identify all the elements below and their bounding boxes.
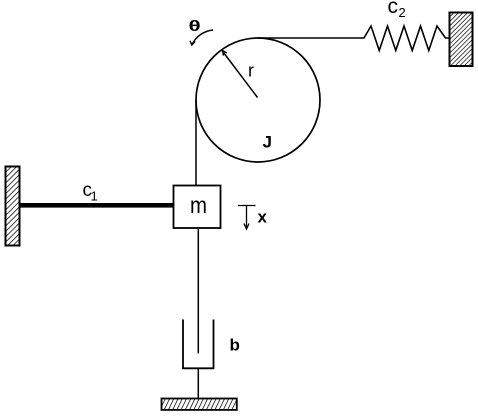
svg-text:J: J xyxy=(263,133,272,152)
svg-text:x: x xyxy=(258,208,268,227)
svg-text:2: 2 xyxy=(399,5,406,20)
svg-text:θ: θ xyxy=(189,18,201,34)
svg-text:1: 1 xyxy=(91,189,98,204)
svg-text:c: c xyxy=(388,0,399,18)
svg-text:m: m xyxy=(190,192,207,218)
svg-text:b: b xyxy=(230,336,240,355)
svg-text:r: r xyxy=(248,61,254,81)
